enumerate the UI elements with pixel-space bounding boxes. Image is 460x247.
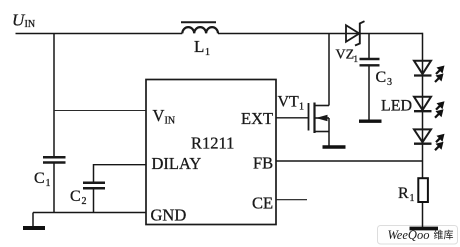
svg-text:WeeQ: WeeQ bbox=[388, 228, 417, 242]
wire top rail left segment bbox=[16, 33, 183, 35]
wire C1 branch drop from top rail bbox=[53, 34, 55, 157]
svg-text:EXT: EXT bbox=[241, 109, 273, 128]
svg-text:LED: LED bbox=[381, 98, 412, 115]
LED D1 bbox=[414, 61, 445, 82]
svg-text:1: 1 bbox=[46, 178, 51, 189]
svg-text:CE: CE bbox=[252, 194, 273, 213]
svg-text:1: 1 bbox=[410, 193, 415, 204]
wire R1 to ground bbox=[422, 203, 424, 228]
node U_IN label bbox=[12, 11, 35, 31]
svg-text:C: C bbox=[70, 188, 81, 205]
wire C1 to ground rail bbox=[53, 164, 55, 213]
capacitor C2 bbox=[70, 164, 105, 213]
LED D3 bbox=[414, 129, 445, 150]
svg-text:VZ: VZ bbox=[336, 48, 355, 63]
IC U1 R1211 box bbox=[146, 80, 276, 225]
wire FB line bbox=[276, 160, 423, 162]
wire top rail middle segment bbox=[218, 33, 360, 35]
transistor VT1 (N-MOSFET) bbox=[278, 34, 330, 146]
pin VIN label bbox=[153, 106, 176, 127]
svg-text:C: C bbox=[34, 170, 45, 187]
svg-text:2: 2 bbox=[82, 196, 87, 207]
capacitor C1 bbox=[34, 157, 66, 189]
ground bar under R1 bbox=[410, 227, 439, 231]
wire VIN branch bbox=[54, 110, 146, 112]
watermark box bbox=[378, 226, 458, 245]
resistor R1 bbox=[398, 178, 428, 204]
svg-text:VT: VT bbox=[278, 94, 300, 111]
svg-text:1: 1 bbox=[354, 54, 359, 64]
capacitor C3 bbox=[360, 34, 393, 120]
wire EXT to gate bbox=[276, 117, 309, 119]
svg-text:R: R bbox=[398, 185, 409, 202]
wire DILAY branch bbox=[94, 164, 147, 166]
wire top rail right segment bbox=[360, 33, 423, 35]
ground bar under C3 bbox=[359, 119, 382, 122]
svg-text:V: V bbox=[153, 106, 165, 125]
svg-text:1: 1 bbox=[299, 102, 304, 113]
wire bottom ground rail bbox=[33, 212, 146, 214]
svg-text:R1211: R1211 bbox=[191, 134, 234, 153]
LED D2 bbox=[414, 97, 445, 118]
svg-text:FB: FB bbox=[253, 154, 273, 173]
svg-text:1: 1 bbox=[205, 47, 210, 58]
svg-text:L: L bbox=[194, 37, 204, 56]
inductor L1 bbox=[181, 22, 218, 58]
wire LED column bbox=[422, 33, 424, 178]
svg-text:3: 3 bbox=[387, 77, 392, 88]
ground bar under VT1 source bbox=[323, 145, 346, 149]
svg-text:IN: IN bbox=[165, 116, 176, 127]
svg-text:GND: GND bbox=[151, 206, 187, 225]
wire CE stub bbox=[276, 199, 307, 201]
zener diode VZ1 bbox=[336, 21, 365, 64]
svg-text:DILAY: DILAY bbox=[152, 154, 202, 173]
ground bbox=[23, 213, 45, 229]
watermark text bbox=[388, 228, 454, 242]
svg-text:oo: oo bbox=[417, 228, 430, 242]
svg-text:IN: IN bbox=[25, 19, 36, 30]
svg-text:维库: 维库 bbox=[434, 228, 454, 241]
svg-text:C: C bbox=[376, 69, 387, 86]
